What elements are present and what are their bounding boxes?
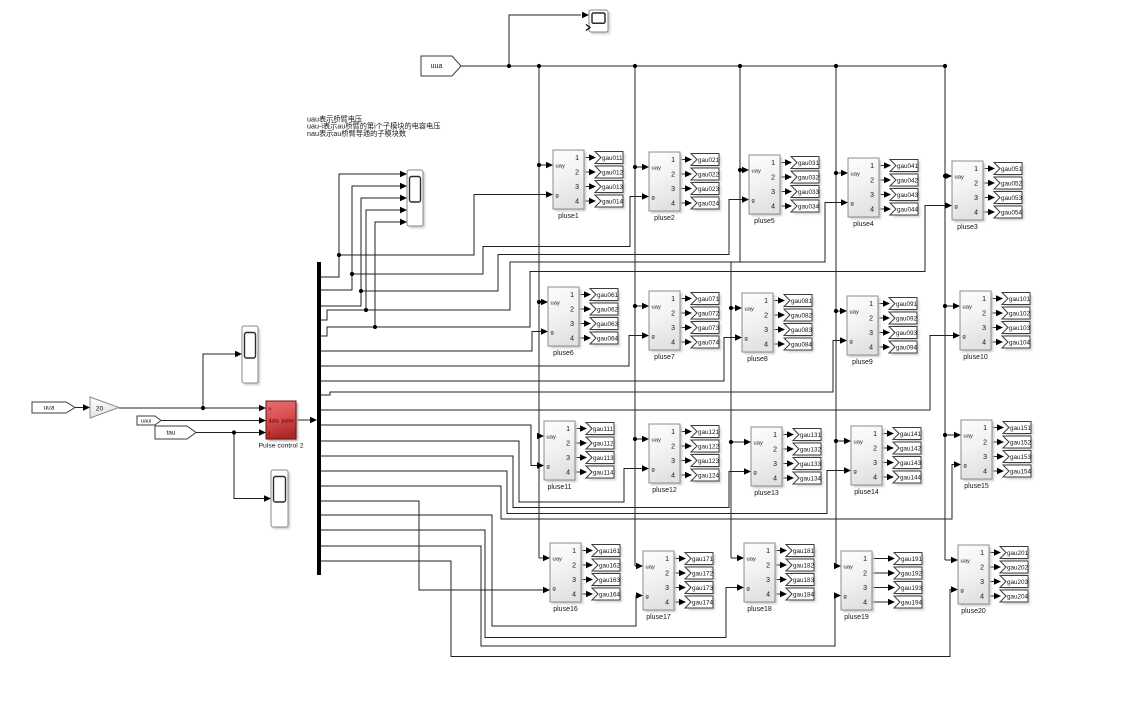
svg-text:gau163: gau163 bbox=[599, 577, 621, 584]
svg-text:gau152: gau152 bbox=[1010, 439, 1032, 446]
svg-text:gau184: gau184 bbox=[793, 591, 815, 598]
svg-text:3: 3 bbox=[974, 195, 978, 202]
svg-text:uay: uay bbox=[652, 305, 661, 311]
svg-text:pluse6: pluse6 bbox=[553, 350, 574, 357]
svg-text:gau034: gau034 bbox=[798, 203, 820, 210]
svg-text:uay: uay bbox=[963, 305, 972, 311]
svg-text:3: 3 bbox=[863, 585, 867, 592]
svg-text:gau044: gau044 bbox=[897, 206, 919, 213]
svg-text:g: g bbox=[646, 594, 649, 600]
svg-text:pluse2: pluse2 bbox=[654, 215, 675, 222]
svg-text:uay: uay bbox=[547, 435, 556, 441]
svg-text:gau042: gau042 bbox=[897, 177, 919, 184]
svg-text:g: g bbox=[551, 330, 554, 336]
svg-text:gau011: gau011 bbox=[602, 155, 623, 162]
svg-text:gau043: gau043 bbox=[897, 192, 919, 199]
svg-text:gau141: gau141 bbox=[900, 431, 922, 438]
svg-text:gau173: gau173 bbox=[692, 585, 714, 592]
svg-text:gau144: gau144 bbox=[900, 474, 922, 481]
svg-text:gau153: gau153 bbox=[1010, 454, 1032, 461]
svg-text:gau191: gau191 bbox=[901, 556, 923, 563]
svg-text:gau062: gau062 bbox=[597, 306, 619, 313]
svg-text:uua: uua bbox=[44, 405, 55, 412]
svg-text:gau092: gau092 bbox=[896, 315, 918, 322]
svg-text:g: g bbox=[747, 586, 750, 592]
svg-text:1: 1 bbox=[575, 155, 579, 162]
svg-text:gau202: gau202 bbox=[1007, 564, 1029, 571]
svg-text:gau073: gau073 bbox=[698, 325, 720, 332]
svg-text:uay: uay bbox=[652, 166, 661, 172]
svg-text:gau031: gau031 bbox=[798, 160, 820, 167]
svg-text:gau113: gau113 bbox=[593, 455, 614, 462]
svg-text:3: 3 bbox=[764, 327, 768, 334]
svg-text:4: 4 bbox=[671, 473, 675, 480]
svg-text:2: 2 bbox=[671, 311, 675, 318]
svg-text:g: g bbox=[745, 336, 748, 342]
svg-text:pluse9: pluse9 bbox=[852, 359, 873, 366]
svg-text:gau154: gau154 bbox=[1010, 468, 1032, 475]
svg-text:2: 2 bbox=[870, 178, 874, 185]
svg-text:4: 4 bbox=[980, 594, 984, 601]
svg-text:uay: uay bbox=[754, 441, 763, 447]
svg-text:pluse1: pluse1 bbox=[558, 213, 579, 220]
svg-text:2: 2 bbox=[863, 571, 867, 578]
svg-text:g: g bbox=[963, 334, 966, 340]
svg-text:pluse12: pluse12 bbox=[652, 487, 677, 494]
svg-text:2: 2 bbox=[974, 181, 978, 188]
svg-text:gau013: gau013 bbox=[602, 184, 624, 191]
svg-text:1: 1 bbox=[869, 301, 873, 308]
svg-text:gau174: gau174 bbox=[692, 599, 714, 606]
svg-text:pluse15: pluse15 bbox=[964, 483, 989, 490]
svg-text:gau022: gau022 bbox=[698, 171, 720, 178]
svg-text:3: 3 bbox=[671, 458, 675, 465]
svg-text:gau081: gau081 bbox=[791, 298, 813, 305]
svg-text:gau133: gau133 bbox=[800, 461, 822, 468]
svg-text:gau072: gau072 bbox=[698, 310, 720, 317]
svg-text:gau183: gau183 bbox=[793, 577, 815, 584]
svg-text:pluse14: pluse14 bbox=[854, 489, 879, 496]
svg-text:pluse11: pluse11 bbox=[547, 484, 571, 491]
svg-text:3: 3 bbox=[983, 454, 987, 461]
svg-text:uay: uay bbox=[556, 164, 565, 170]
svg-text:1: 1 bbox=[983, 425, 987, 432]
svg-text:g: g bbox=[652, 467, 655, 473]
svg-text:1: 1 bbox=[570, 292, 574, 299]
svg-text:uay: uay bbox=[854, 440, 863, 446]
svg-text:g: g bbox=[652, 334, 655, 340]
svg-text:gau134: gau134 bbox=[800, 475, 822, 482]
svg-text:gau131: gau131 bbox=[800, 432, 822, 439]
svg-text:2: 2 bbox=[773, 447, 777, 454]
svg-text:4: 4 bbox=[773, 476, 777, 483]
svg-text:Pulse control 2: Pulse control 2 bbox=[259, 443, 304, 450]
svg-text:pluse18: pluse18 bbox=[747, 606, 772, 613]
svg-text:4: 4 bbox=[764, 342, 768, 349]
svg-text:g: g bbox=[961, 588, 964, 594]
svg-text:uay: uay bbox=[851, 172, 860, 178]
svg-text:gau071: gau071 bbox=[698, 296, 720, 303]
svg-text:3: 3 bbox=[575, 184, 579, 191]
svg-text:gau194: gau194 bbox=[901, 599, 923, 606]
svg-text:g: g bbox=[854, 469, 857, 475]
svg-text:1: 1 bbox=[671, 157, 675, 164]
svg-text:gau093: gau093 bbox=[896, 330, 918, 337]
svg-text:3: 3 bbox=[980, 579, 984, 586]
svg-text:3: 3 bbox=[671, 186, 675, 193]
svg-text:3: 3 bbox=[773, 461, 777, 468]
svg-text:gau143: gau143 bbox=[900, 460, 922, 467]
svg-text:2: 2 bbox=[575, 170, 579, 177]
svg-text:gau123: gau123 bbox=[698, 458, 720, 465]
svg-text:gau164: gau164 bbox=[599, 591, 621, 598]
svg-text:uay: uay bbox=[747, 557, 756, 563]
svg-text:uay: uay bbox=[652, 438, 661, 444]
svg-text:2: 2 bbox=[980, 565, 984, 572]
svg-text:gau033: gau033 bbox=[798, 189, 820, 196]
svg-text:uay: uay bbox=[752, 169, 761, 175]
svg-text:gau111: gau111 bbox=[593, 426, 614, 433]
svg-text:1: 1 bbox=[671, 296, 675, 303]
svg-text:4: 4 bbox=[873, 475, 877, 482]
svg-text:gau021: gau021 bbox=[698, 157, 720, 164]
svg-text:pluse10: pluse10 bbox=[963, 354, 988, 361]
svg-text:1: 1 bbox=[766, 548, 770, 555]
svg-text:3: 3 bbox=[869, 330, 873, 337]
svg-text:gau101: gau101 bbox=[1009, 296, 1031, 303]
svg-text:4: 4 bbox=[974, 210, 978, 217]
svg-text:gau054: gau054 bbox=[1001, 209, 1023, 216]
svg-text:data: data bbox=[269, 419, 279, 425]
svg-text:3: 3 bbox=[771, 189, 775, 196]
svg-text:g: g bbox=[955, 204, 958, 210]
svg-text:4: 4 bbox=[566, 470, 570, 477]
svg-text:gau193: gau193 bbox=[901, 585, 923, 592]
svg-text:uay: uay bbox=[553, 557, 562, 563]
svg-text:4: 4 bbox=[982, 340, 986, 347]
svg-text:g: g bbox=[754, 470, 757, 476]
svg-text:gau103: gau103 bbox=[1009, 325, 1031, 332]
svg-text:2: 2 bbox=[671, 444, 675, 451]
svg-text:uay: uay bbox=[964, 434, 973, 440]
svg-text:1: 1 bbox=[873, 431, 877, 438]
svg-text:1: 1 bbox=[974, 166, 978, 173]
svg-text:uay: uay bbox=[850, 310, 859, 316]
svg-text:g: g bbox=[547, 464, 550, 470]
svg-text:gau061: gau061 bbox=[597, 292, 619, 299]
svg-text:gau124: gau124 bbox=[698, 472, 720, 479]
svg-text:gau121: gau121 bbox=[698, 429, 720, 436]
svg-text:2: 2 bbox=[771, 175, 775, 182]
svg-text:uay: uay bbox=[551, 301, 560, 307]
svg-text:3: 3 bbox=[572, 577, 576, 584]
svg-text:gau084: gau084 bbox=[791, 341, 813, 348]
svg-text:2: 2 bbox=[869, 316, 873, 323]
svg-text:gau142: gau142 bbox=[900, 445, 922, 452]
svg-text:pluse5: pluse5 bbox=[754, 218, 775, 225]
svg-text:2: 2 bbox=[873, 446, 877, 453]
svg-text:pluse7: pluse7 bbox=[654, 354, 675, 361]
svg-text:4: 4 bbox=[671, 201, 675, 208]
svg-text:n: n bbox=[269, 407, 272, 413]
svg-text:gau023: gau023 bbox=[698, 186, 720, 193]
svg-text:gau181: gau181 bbox=[793, 548, 815, 555]
svg-text:4: 4 bbox=[771, 204, 775, 211]
svg-text:3: 3 bbox=[766, 577, 770, 584]
svg-text:2: 2 bbox=[572, 563, 576, 570]
svg-text:gau172: gau172 bbox=[692, 570, 714, 577]
svg-text:gau074: gau074 bbox=[698, 339, 720, 346]
svg-text:gau203: gau203 bbox=[1007, 579, 1029, 586]
svg-text:gau012: gau012 bbox=[602, 169, 624, 176]
svg-text:4: 4 bbox=[863, 600, 867, 607]
svg-text:uay: uay bbox=[646, 565, 655, 571]
svg-text:3: 3 bbox=[566, 455, 570, 462]
svg-text:2: 2 bbox=[671, 172, 675, 179]
svg-text:pluse13: pluse13 bbox=[754, 490, 779, 497]
svg-text:1: 1 bbox=[863, 556, 867, 563]
svg-text:gau053: gau053 bbox=[1001, 195, 1023, 202]
svg-text:uay: uay bbox=[745, 307, 754, 313]
svg-text:20: 20 bbox=[96, 406, 104, 413]
svg-text:uaui: uaui bbox=[141, 419, 152, 425]
svg-text:pluse16: pluse16 bbox=[553, 606, 578, 613]
svg-text:gau171: gau171 bbox=[692, 556, 714, 563]
svg-text:1: 1 bbox=[566, 426, 570, 433]
svg-text:2: 2 bbox=[764, 313, 768, 320]
svg-text:pluse3: pluse3 bbox=[957, 224, 978, 231]
svg-text:g: g bbox=[553, 586, 556, 592]
svg-text:4: 4 bbox=[665, 600, 669, 607]
svg-text:4: 4 bbox=[983, 469, 987, 476]
svg-text:g: g bbox=[556, 193, 559, 199]
svg-text:gau082: gau082 bbox=[791, 312, 813, 319]
svg-text:g: g bbox=[850, 339, 853, 345]
svg-text:gau161: gau161 bbox=[599, 548, 621, 555]
svg-text:4: 4 bbox=[671, 340, 675, 347]
svg-text:1: 1 bbox=[671, 429, 675, 436]
svg-text:4: 4 bbox=[572, 592, 576, 599]
svg-text:2: 2 bbox=[570, 307, 574, 314]
svg-text:g: g bbox=[752, 198, 755, 204]
svg-text:1: 1 bbox=[982, 296, 986, 303]
svg-text:gau052: gau052 bbox=[1001, 180, 1023, 187]
svg-text:gau182: gau182 bbox=[793, 562, 815, 569]
svg-text:pulse: pulse bbox=[282, 419, 295, 425]
svg-text:1: 1 bbox=[771, 160, 775, 167]
svg-text:gau192: gau192 bbox=[901, 570, 923, 577]
svg-text:gau122: gau122 bbox=[698, 443, 720, 450]
svg-text:3: 3 bbox=[982, 325, 986, 332]
svg-text:g: g bbox=[851, 201, 854, 207]
svg-text:gau032: gau032 bbox=[798, 174, 820, 181]
svg-text:1: 1 bbox=[980, 550, 984, 557]
svg-text:1: 1 bbox=[764, 298, 768, 305]
svg-text:1: 1 bbox=[773, 432, 777, 439]
svg-text:gau201: gau201 bbox=[1007, 550, 1029, 557]
svg-text:gau064: gau064 bbox=[597, 335, 619, 342]
svg-text:2: 2 bbox=[665, 571, 669, 578]
svg-text:3: 3 bbox=[671, 325, 675, 332]
svg-text:gau091: gau091 bbox=[896, 301, 918, 308]
svg-text:4: 4 bbox=[575, 199, 579, 206]
svg-text:gau104: gau104 bbox=[1009, 339, 1031, 346]
svg-text:pluse20: pluse20 bbox=[961, 608, 986, 615]
svg-text:gau162: gau162 bbox=[599, 562, 621, 569]
svg-text:2: 2 bbox=[982, 311, 986, 318]
svg-text:3: 3 bbox=[870, 192, 874, 199]
svg-text:1: 1 bbox=[572, 548, 576, 555]
svg-text:gau051: gau051 bbox=[1001, 166, 1023, 173]
svg-text:g: g bbox=[844, 594, 847, 600]
svg-text:uua: uua bbox=[431, 63, 443, 70]
svg-text:g: g bbox=[964, 463, 967, 469]
svg-text:3: 3 bbox=[873, 460, 877, 467]
svg-text:3: 3 bbox=[665, 585, 669, 592]
svg-text:gau014: gau014 bbox=[602, 198, 624, 205]
svg-text:2: 2 bbox=[566, 441, 570, 448]
svg-text:gau151: gau151 bbox=[1010, 425, 1032, 432]
svg-text:gau114: gau114 bbox=[593, 469, 614, 476]
svg-text:pluse8: pluse8 bbox=[747, 356, 768, 363]
svg-text:2: 2 bbox=[766, 563, 770, 570]
svg-text:gau112: gau112 bbox=[593, 440, 614, 447]
svg-text:g: g bbox=[652, 195, 655, 201]
svg-text:4: 4 bbox=[870, 207, 874, 214]
svg-text:tau: tau bbox=[166, 430, 175, 437]
svg-text:uay: uay bbox=[955, 175, 964, 181]
svg-text:gau094: gau094 bbox=[896, 344, 918, 351]
svg-text:gau063: gau063 bbox=[597, 321, 619, 328]
svg-text:pluse17: pluse17 bbox=[646, 614, 671, 621]
svg-text:4: 4 bbox=[570, 336, 574, 343]
svg-text:gau083: gau083 bbox=[791, 327, 813, 334]
svg-text:4: 4 bbox=[766, 592, 770, 599]
svg-text:4: 4 bbox=[869, 345, 873, 352]
svg-text:uay: uay bbox=[844, 565, 853, 571]
svg-text:uay: uay bbox=[961, 559, 970, 565]
svg-text:pluse4: pluse4 bbox=[853, 221, 874, 228]
svg-text:gau041: gau041 bbox=[897, 163, 919, 170]
svg-text:gau024: gau024 bbox=[698, 200, 720, 207]
svg-text:gau204: gau204 bbox=[1007, 593, 1029, 600]
svg-text:1: 1 bbox=[870, 163, 874, 170]
svg-text:1: 1 bbox=[665, 556, 669, 563]
svg-text:nau表示au桥臂导通的子模块数: nau表示au桥臂导通的子模块数 bbox=[307, 129, 406, 138]
svg-text:gau132: gau132 bbox=[800, 446, 822, 453]
svg-text:gau102: gau102 bbox=[1009, 310, 1031, 317]
svg-text:3: 3 bbox=[570, 321, 574, 328]
svg-text:2: 2 bbox=[983, 440, 987, 447]
svg-text:pluse19: pluse19 bbox=[844, 614, 869, 621]
